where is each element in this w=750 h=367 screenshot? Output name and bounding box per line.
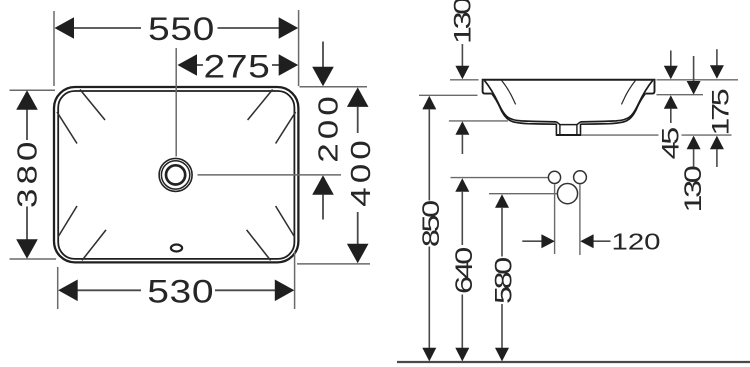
dimension 45 (rim above counter)	[658, 51, 685, 160]
dimension 175 (total basin height)	[707, 49, 734, 167]
basin right bowl wall inner line	[581, 80, 653, 122]
extension line 380 bottom horizontal	[10, 258, 57, 260]
extension line 530 left vertical	[57, 267, 59, 309]
dimension 850 (counter height)	[418, 96, 445, 362]
svg-text:380: 380	[11, 138, 43, 208]
drain middle circle	[161, 161, 189, 189]
wall hole big	[557, 184, 577, 204]
corner slope marks bottom-left	[58, 206, 106, 260]
extension line bottom edge right horizontal (400 bottom)	[297, 263, 370, 265]
svg-text:120: 120	[611, 229, 660, 255]
extension line left small hole vertical	[554, 184, 556, 254]
dimension 275	[178, 49, 299, 85]
dimension 120 (hole spacing)	[522, 229, 660, 255]
basin outer rim rectangle	[54, 87, 298, 262]
basin right interior horizon curve	[622, 80, 636, 104]
svg-text:400: 400	[344, 136, 376, 206]
extension line right vertical (550/275 right)	[298, 10, 300, 86]
dimension 550	[55, 11, 299, 47]
extension line drain center horizontal (200 bottom)	[198, 174, 342, 176]
extension line 380 top horizontal	[10, 89, 56, 91]
svg-text:200: 200	[312, 92, 344, 162]
dimension 400	[344, 87, 376, 263]
dimension 130 right (depth below counter)	[680, 56, 707, 212]
overflow slot	[171, 245, 182, 252]
svg-text:130: 130	[449, 0, 476, 44]
drain outer circle	[159, 158, 192, 191]
reference line rim-top left extension	[450, 79, 479, 81]
dimension 640 (small holes height)	[451, 178, 478, 361]
svg-text:850: 850	[418, 201, 445, 247]
svg-text:45: 45	[658, 128, 685, 160]
reference line countertop left	[419, 94, 478, 96]
extension line drain center vertical (275 left)	[175, 48, 177, 157]
dimension 130 top (bowl depth)	[449, 0, 476, 154]
reference line bowl bottom left extension	[449, 120, 508, 122]
basin left interior horizon curve	[501, 80, 515, 104]
basin inner rim rectangle	[58, 91, 294, 259]
svg-text:130: 130	[680, 166, 707, 212]
wall hole small right	[574, 171, 587, 184]
dimension 530	[58, 274, 294, 310]
extension line right small hole vertical	[579, 184, 581, 255]
dimension 580 (big hole height)	[490, 194, 517, 361]
reference line drain bottom right extension	[581, 134, 731, 136]
basin left bowl wall inner line	[484, 80, 556, 122]
svg-text:530: 530	[147, 274, 214, 310]
wall hole small left	[548, 171, 560, 183]
svg-text:175: 175	[707, 89, 734, 135]
floor line	[397, 361, 750, 363]
reference line big hole level	[489, 193, 557, 195]
reference line rim-top right extension	[657, 79, 739, 81]
basin rim top line	[482, 79, 656, 81]
corner slope marks bottom-right	[247, 206, 295, 260]
basin right bowl wall outer line	[581, 94, 646, 125]
reference line countertop right	[657, 94, 704, 96]
extension line left vertical (550 left / top)	[53, 11, 55, 86]
svg-text:580: 580	[490, 258, 517, 304]
dimension 200	[312, 42, 344, 220]
extension line 530 right vertical	[294, 252, 296, 309]
basin left bowl wall outer line	[492, 94, 557, 125]
extension line top edge right horizontal (400/200 top)	[300, 86, 368, 88]
drain inner circle	[166, 165, 185, 184]
reference line small holes level	[451, 177, 549, 179]
dimension 380	[11, 90, 43, 258]
basin left rim lip	[483, 81, 492, 94]
drain trap box	[556, 122, 582, 135]
corner slope marks top-right	[248, 90, 296, 144]
svg-text:640: 640	[451, 248, 478, 294]
svg-text:550: 550	[148, 11, 215, 47]
corner slope marks top-left	[57, 90, 105, 144]
basin right rim lip	[645, 81, 654, 94]
svg-text:275: 275	[204, 49, 271, 85]
